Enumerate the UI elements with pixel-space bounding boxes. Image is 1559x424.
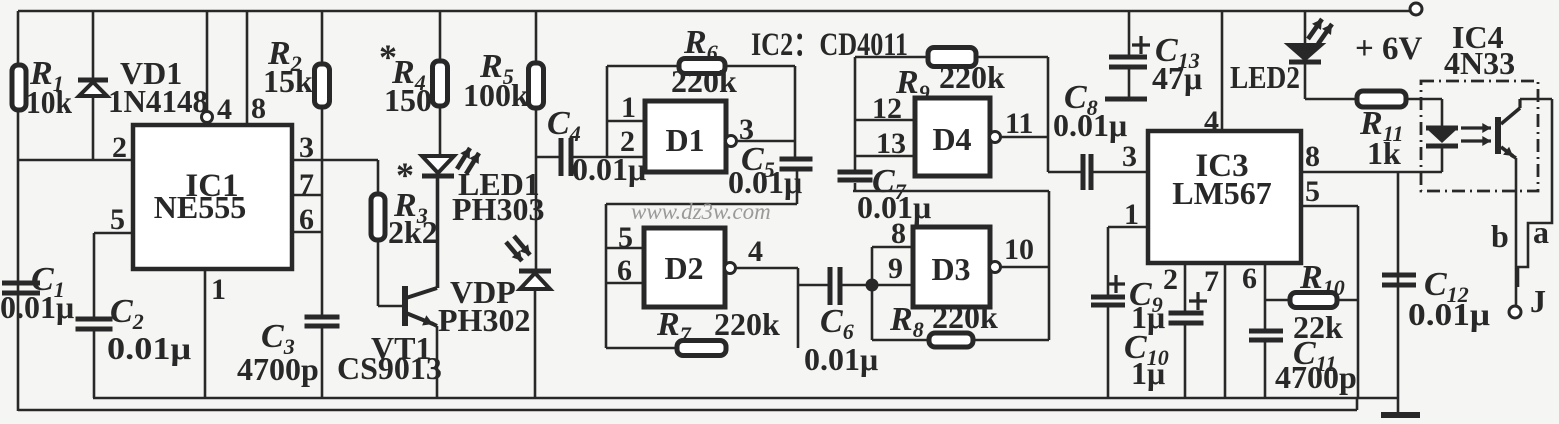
svg-text:1: 1 [621, 91, 636, 124]
svg-text:9: 9 [888, 252, 903, 285]
svg-text:b: b [1491, 218, 1509, 254]
svg-text:220k: 220k [932, 299, 998, 335]
svg-text:D2: D2 [664, 250, 703, 286]
svg-text:2k2: 2k2 [388, 214, 438, 250]
svg-text:13: 13 [876, 127, 906, 160]
svg-text:15k: 15k [263, 63, 313, 99]
svg-text:150: 150 [384, 82, 432, 118]
svg-text:220k: 220k [714, 306, 780, 342]
svg-text:J: J [1530, 283, 1546, 319]
svg-text:0.01μ: 0.01μ [1408, 296, 1490, 332]
svg-text:+ 6V: + 6V [1355, 31, 1423, 67]
svg-text:4N33: 4N33 [1444, 45, 1515, 81]
svg-text:D3: D3 [931, 251, 970, 287]
svg-text:2: 2 [112, 131, 127, 164]
svg-text:0.01μ: 0.01μ [572, 151, 646, 187]
svg-text:8: 8 [1305, 140, 1320, 173]
svg-text:5: 5 [618, 221, 633, 254]
svg-text:LM567: LM567 [1172, 175, 1272, 211]
svg-text:3: 3 [1122, 140, 1137, 173]
svg-text:4: 4 [1204, 105, 1219, 138]
svg-text:4: 4 [217, 93, 232, 126]
svg-text:NE555: NE555 [154, 189, 246, 225]
svg-text:1μ: 1μ [1131, 355, 1165, 391]
svg-text:2: 2 [1163, 263, 1178, 296]
svg-text:220k: 220k [671, 63, 737, 99]
svg-text:100k: 100k [463, 77, 529, 113]
svg-text:LED2: LED2 [1230, 59, 1300, 95]
svg-text:4700p: 4700p [1275, 359, 1357, 395]
svg-text:0.01μ: 0.01μ [1053, 107, 1127, 143]
svg-text:6: 6 [1242, 262, 1257, 295]
svg-text:7: 7 [1204, 265, 1219, 298]
svg-text:4700p: 4700p [237, 351, 319, 387]
svg-text:CS9013: CS9013 [337, 350, 442, 386]
svg-text:47μ: 47μ [1152, 60, 1202, 96]
svg-text:5: 5 [1305, 175, 1320, 208]
svg-text:0.01μ: 0.01μ [857, 189, 931, 225]
svg-text:2: 2 [620, 125, 635, 158]
svg-text:a: a [1533, 214, 1549, 250]
svg-text:10k: 10k [26, 84, 72, 120]
svg-text:11: 11 [1005, 107, 1033, 140]
svg-text:0.01μ: 0.01μ [0, 289, 74, 325]
svg-text:PH303: PH303 [452, 191, 544, 227]
svg-text:5: 5 [110, 203, 125, 236]
svg-text:220k: 220k [939, 59, 1005, 95]
svg-text:6: 6 [617, 254, 632, 287]
svg-text:4: 4 [748, 235, 763, 268]
svg-text:0.01μ: 0.01μ [107, 330, 191, 366]
svg-text:D1: D1 [665, 122, 704, 158]
svg-text:D4: D4 [932, 121, 971, 157]
svg-text:0.01μ: 0.01μ [728, 164, 802, 200]
svg-text:1N4148: 1N4148 [108, 83, 208, 119]
svg-text:PH302: PH302 [438, 302, 530, 338]
svg-text:1: 1 [211, 273, 226, 306]
svg-text:0.01μ: 0.01μ [804, 341, 878, 377]
svg-text:www.dz3w.com: www.dz3w.com [631, 199, 771, 224]
svg-text:1k: 1k [1367, 135, 1401, 171]
svg-text:10: 10 [1004, 233, 1034, 266]
